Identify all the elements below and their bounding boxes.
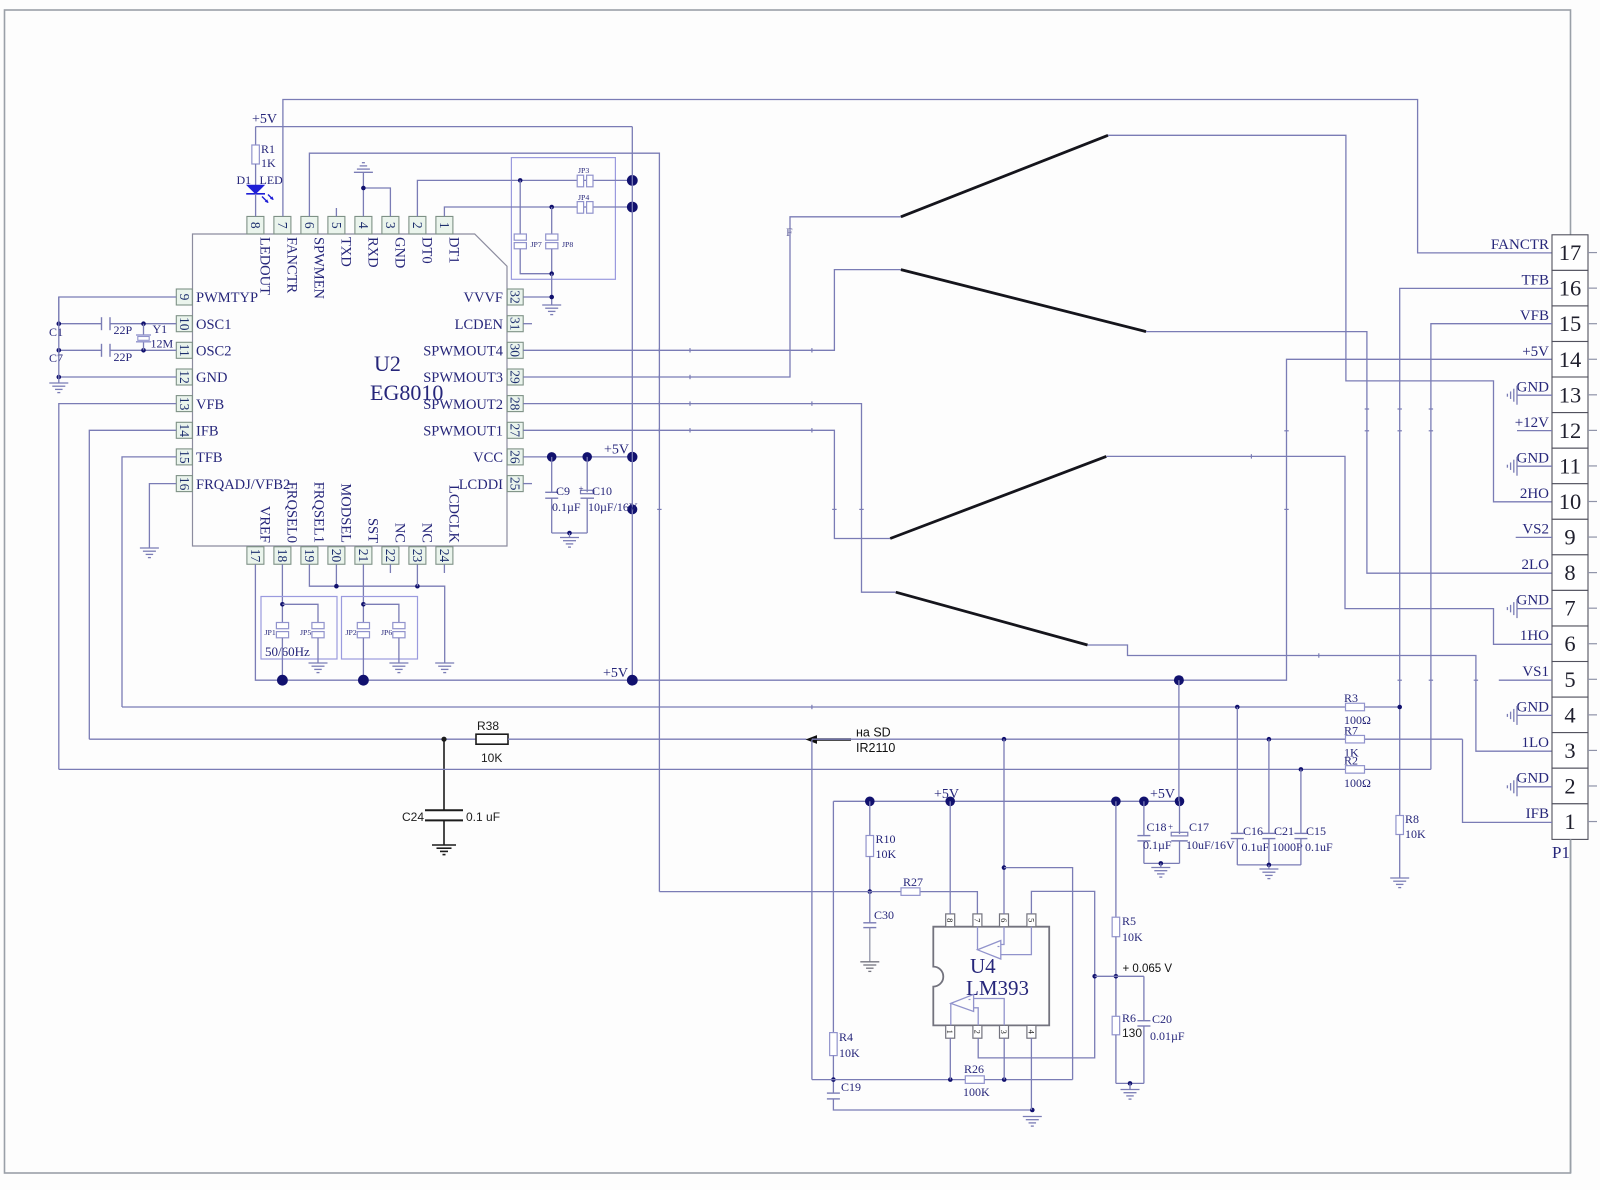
- svg-text:8: 8: [248, 222, 263, 229]
- U2 pin 32 name VVVF: [464, 290, 503, 306]
- connector P1 pin 14 box: [1552, 342, 1588, 378]
- svg-text:19: 19: [302, 549, 317, 563]
- svg-text:LED: LED: [260, 173, 284, 187]
- resistor R26: [963, 1062, 990, 1099]
- svg-text:10K: 10K: [876, 847, 897, 861]
- connector P1 pin 4 label GND: [1517, 699, 1550, 715]
- svg-text:SST: SST: [365, 518, 381, 543]
- svg-text:C24: C24: [402, 810, 424, 824]
- svg-text:2: 2: [972, 1030, 982, 1034]
- wire C24 vertical: [443, 739, 445, 810]
- connector P1 pin 3 label 1LO: [1522, 735, 1550, 751]
- svg-text:GND: GND: [1517, 699, 1550, 715]
- connector P1 pin 12 right stub: [1588, 429, 1597, 431]
- wire hop tick: [659, 375, 690, 379]
- wire OSC2 pin11: [59, 349, 177, 351]
- wire pin5 chain: [978, 891, 1094, 1058]
- connector P1 pin 8 box: [1552, 555, 1588, 591]
- connector P1 pin 1 right stub: [1588, 821, 1597, 823]
- node RXD-GND junction: [361, 186, 366, 191]
- connector P1 pin 9 label VS2: [1522, 522, 1549, 538]
- svg-text:22: 22: [383, 549, 398, 563]
- capacitor C17: [1168, 801, 1235, 863]
- wire +5V horizontal to JP net: [256, 126, 633, 128]
- connector P1 pin 10 right stub: [1588, 501, 1597, 503]
- svg-text:10K: 10K: [1122, 930, 1143, 944]
- connector P1 pin 1 box: [1552, 804, 1588, 840]
- wire hop tick: [659, 401, 690, 405]
- connector P1 pin 5 box: [1552, 662, 1588, 698]
- jumper JP4: [577, 193, 593, 213]
- svg-text:10: 10: [1559, 489, 1582, 514]
- ground (R8): [1390, 878, 1409, 888]
- svg-text:2: 2: [410, 222, 425, 229]
- connector P1 pin 12 box: [1552, 413, 1588, 449]
- connector P1 pin 15 label VFB: [1520, 308, 1549, 324]
- U2 pin 1 box: [436, 216, 453, 234]
- svg-text:12: 12: [177, 370, 192, 384]
- node pin4 gnd junction: [1030, 1108, 1035, 1113]
- svg-text:1K: 1K: [261, 156, 276, 170]
- wire R27 to pin7: [921, 892, 978, 914]
- wire +5V to R1: [255, 127, 257, 145]
- U2 pin 21 name SST: [365, 518, 381, 543]
- svg-text:3: 3: [1564, 738, 1575, 763]
- wire VVVF pin32: [523, 296, 552, 298]
- ground (P1 pin2): [1507, 777, 1552, 796]
- wire JP5 to ground: [317, 638, 319, 663]
- U4 pin 6 box: [999, 914, 1009, 927]
- U2 pin 10 box: [176, 316, 192, 332]
- ground (P1 pin11): [1507, 457, 1552, 476]
- svg-text:+: +: [579, 484, 584, 494]
- wire R3 out to TFB vert: [1365, 706, 1400, 708]
- connector P1 pin 7 right stub: [1588, 607, 1597, 609]
- U2 pin 7 box: [274, 216, 291, 234]
- U2 pin 16 name FRQADJ/VFB2: [196, 477, 290, 493]
- node DT0-JP7 junction: [518, 178, 523, 183]
- wire U4 pin1 down: [949, 1038, 951, 1079]
- wire P1 TFB pin16: [1400, 288, 1552, 815]
- wire C9-C10 bottoms: [552, 532, 588, 534]
- U4 pin 8 box: [945, 914, 955, 927]
- node OSC1 left junction: [57, 321, 62, 326]
- svg-text:17: 17: [248, 549, 263, 563]
- U2 pin 18 box: [274, 547, 291, 565]
- connector P1 pin 17 box: [1552, 235, 1588, 271]
- svg-text:130: 130: [1122, 1026, 1142, 1040]
- U2 pin 27 name SPWMOUT1: [423, 424, 503, 440]
- connector P1 pin 1 label IFB: [1526, 806, 1549, 822]
- svg-text:1: 1: [1564, 809, 1575, 834]
- svg-text:11: 11: [177, 344, 192, 357]
- wire U4 pin3 into comparator: [974, 999, 1005, 1026]
- svg-text:F: F: [786, 225, 793, 239]
- svg-text:31: 31: [508, 317, 523, 331]
- svg-text:GND: GND: [1517, 593, 1550, 609]
- jumper box JP2/JP6: [342, 597, 418, 660]
- connector P1 pin 8 right stub: [1588, 572, 1597, 574]
- svg-text:D1: D1: [237, 173, 252, 187]
- svg-text:MODSEL: MODSEL: [338, 483, 354, 543]
- svg-text:FRQADJ/VFB2: FRQADJ/VFB2: [196, 477, 290, 493]
- wire JP7/JP8 bottoms join: [520, 249, 552, 274]
- svg-text:DT1: DT1: [446, 237, 462, 264]
- svg-text:GND: GND: [1517, 379, 1550, 395]
- wire P1 bottom border link: [1570, 839, 1572, 1173]
- svg-text:VFB: VFB: [196, 397, 224, 413]
- connector P1 pin 2 right stub: [1588, 785, 1597, 787]
- svg-text:29: 29: [508, 370, 523, 384]
- ground (VVVF): [542, 305, 561, 315]
- resistor R7: [1344, 724, 1365, 760]
- ground (FRQADJ): [140, 548, 159, 558]
- svg-text:JP6: JP6: [381, 628, 392, 637]
- svg-text:+5V: +5V: [1150, 787, 1175, 802]
- svg-text:25: 25: [508, 477, 523, 491]
- wire LCDEN stub: [523, 323, 532, 325]
- svg-text:R26: R26: [964, 1062, 984, 1076]
- svg-text:12M: 12M: [151, 337, 174, 351]
- svg-text:R2: R2: [1344, 754, 1358, 768]
- svg-text:C16: C16: [1243, 824, 1263, 838]
- svg-text:R3: R3: [1344, 691, 1358, 705]
- wire U4 pin3 down: [1003, 1038, 1005, 1079]
- connector P1 pin 13 box: [1552, 377, 1588, 413]
- svg-text:JP2: JP2: [346, 628, 357, 637]
- capacitor C30: [863, 908, 894, 928]
- wire U4 pin4 down: [1030, 1038, 1032, 1110]
- wire rail to R4: [832, 801, 834, 1032]
- connector P1 pin 13 right stub: [1588, 394, 1597, 396]
- wire SPWMOUT3 to 2HO chain: [523, 217, 901, 377]
- svg-text:VS2: VS2: [1522, 522, 1549, 538]
- wire hop tick (TFB line): [811, 705, 813, 709]
- svg-text:1HO: 1HO: [1520, 628, 1549, 644]
- connector P1 pin 10 box: [1552, 484, 1588, 520]
- svg-text:GND: GND: [392, 237, 408, 268]
- svg-text:C15: C15: [1306, 824, 1326, 838]
- wire osc ground run: [58, 297, 60, 383]
- svg-text:JP1: JP1: [265, 628, 276, 637]
- connector P1 pin 8 label 2LO: [1522, 557, 1550, 573]
- wire hop ticks (y409): [1365, 408, 1433, 410]
- resistor R2: [1344, 754, 1371, 791]
- node DT0 net big dot: [627, 175, 638, 186]
- connector P1 pin 2 label GND: [1517, 770, 1550, 786]
- capacitor C9: [545, 457, 581, 533]
- svg-text:10: 10: [177, 317, 192, 331]
- svg-text:SPWMOUT4: SPWMOUT4: [423, 344, 504, 360]
- svg-text:15: 15: [177, 450, 192, 464]
- wire JP8 vertical: [551, 207, 553, 234]
- ground (P1 pin13): [1507, 386, 1552, 405]
- wire JP6 to ground: [398, 638, 400, 663]
- U2 pin 14 name IFB: [196, 424, 219, 440]
- node R3 input junction: [1235, 705, 1240, 710]
- U2 pin 20 name MODSEL: [338, 483, 354, 543]
- U4 pin 2 box: [972, 1025, 982, 1038]
- U2 pin 26 box: [507, 449, 523, 465]
- wire R4 to C19: [832, 1056, 834, 1094]
- power +5V label (mid rail): [603, 666, 628, 681]
- connector P1 pin 11 right stub: [1588, 465, 1597, 467]
- svg-text:0.1µF: 0.1µF: [1143, 838, 1172, 852]
- U2 pin 32 box: [507, 289, 523, 305]
- svg-text:24: 24: [437, 549, 452, 563]
- wire U4 pin5 into comparator: [1001, 927, 1032, 955]
- node +5V right big dot: [1174, 675, 1184, 685]
- U2 pin 2 name DT0: [419, 237, 435, 264]
- connector P1 pin 12 label +12V: [1515, 415, 1549, 431]
- node R3 output junction: [1397, 705, 1402, 710]
- svg-text:0.1µF: 0.1µF: [552, 500, 581, 514]
- ground (U4 pin4): [1023, 1117, 1042, 1127]
- svg-text:6: 6: [1564, 631, 1575, 656]
- node rail right-end dot: [1175, 797, 1185, 807]
- U2 pin 17 name VREF: [257, 506, 273, 543]
- svg-text:JP7: JP7: [531, 240, 542, 249]
- U2 pin 3 name GND: [392, 237, 408, 268]
- svg-text:50/60Hz: 50/60Hz: [265, 644, 310, 659]
- svg-text:+5V: +5V: [252, 112, 277, 127]
- wire hop ticks (y431): [1284, 430, 1433, 432]
- node R10-R27 junction: [868, 889, 873, 894]
- wire hop tick: [659, 348, 690, 352]
- ground (R6/C20): [1121, 1090, 1140, 1100]
- power +5V label (VCC): [604, 443, 629, 458]
- node JP7-JP8 junction: [549, 271, 554, 276]
- wire hop tick (1LO line): [1318, 653, 1320, 657]
- wire hop ticks (VS1 row): [1398, 679, 1479, 681]
- svg-text:16: 16: [177, 477, 192, 491]
- node C24 junction: [441, 737, 446, 742]
- wire NC22 stub: [389, 564, 391, 573]
- wire comparator B output to pin1: [950, 1003, 952, 1025]
- svg-text:16: 16: [1559, 276, 1582, 301]
- wire SPWMOUT2 to 1LO chain: [523, 404, 896, 593]
- svg-text:JP4: JP4: [578, 193, 589, 202]
- wire 2LO chain to P1-8: [1146, 332, 1552, 574]
- wire TFB line to R3: [122, 706, 1346, 708]
- wire C19 to pin4-gnd: [833, 1099, 1032, 1110]
- node caps gnd junction: [1267, 863, 1272, 868]
- capacitor C7: [49, 344, 133, 365]
- wire SST pin21 to JP2: [362, 564, 364, 622]
- svg-text:14: 14: [177, 424, 192, 438]
- U2 pin 27 box: [507, 422, 523, 438]
- node pin6 feedback junction: [1002, 865, 1007, 870]
- svg-text:NC: NC: [419, 523, 435, 543]
- wire 2HO chain to P1-10: [1108, 135, 1552, 502]
- node +5V branch dot: [627, 504, 637, 514]
- svg-text:10K: 10K: [481, 751, 502, 765]
- connector P1 pin 16 box: [1552, 270, 1588, 306]
- svg-text:+12V: +12V: [1515, 415, 1549, 431]
- svg-text:OSC2: OSC2: [196, 344, 231, 360]
- connector P1 pin 9 box: [1552, 519, 1588, 555]
- svg-text:4: 4: [356, 222, 371, 229]
- node DT1 net big dot: [627, 202, 638, 213]
- capacitor C20: [1137, 976, 1185, 1083]
- svg-text:0.01µF: 0.01µF: [1150, 1029, 1185, 1043]
- wire IFB pin14 down: [89, 430, 176, 739]
- U2 pin 23 box: [409, 547, 426, 565]
- svg-text:R6: R6: [1122, 1011, 1136, 1025]
- U2 pin 9 name PWMTYP: [196, 290, 258, 306]
- node VVVF junction: [549, 295, 554, 300]
- capacitor C18: [1137, 801, 1172, 863]
- svg-text:6: 6: [999, 918, 1009, 922]
- U2 pin 18 name FRQSEL0: [284, 482, 300, 543]
- wire P1 VS2 stub: [1516, 536, 1552, 538]
- jumper box JP1/JP5 50/60Hz: [261, 597, 337, 660]
- node R4-R26line junction: [831, 1077, 836, 1082]
- node F ghost label: [786, 225, 793, 239]
- node NC23 junction: [415, 584, 420, 589]
- node OSC2-Y1 junction: [141, 348, 146, 353]
- jumper JP1: [265, 623, 289, 638]
- wire +5V bottom rail: [833, 800, 1179, 802]
- svg-text:32: 32: [508, 290, 523, 304]
- svg-text:9: 9: [177, 294, 192, 301]
- wire GND pin12: [59, 376, 177, 378]
- svg-text:C9: C9: [556, 484, 570, 498]
- U2 pin 30 box: [507, 342, 523, 358]
- LED D1: [237, 173, 284, 203]
- wire JP2 to +5V rail: [362, 638, 364, 680]
- capacitor C19: [827, 1080, 861, 1099]
- svg-text:LCDDI: LCDDI: [459, 477, 503, 493]
- svg-text:NC: NC: [392, 523, 408, 543]
- node VCC junction C9: [547, 452, 557, 462]
- bus entry diagonal (SPWMOUT1-1HO): [890, 456, 1106, 538]
- svg-text:PWMTYP: PWMTYP: [196, 290, 258, 306]
- resistor R3: [1344, 691, 1371, 727]
- connector P1 pin 17 label FANCTR: [1491, 237, 1549, 253]
- U2 pin 31 box: [507, 316, 523, 332]
- wire hop tick: [811, 348, 813, 352]
- connector P1 pin 4 box: [1552, 697, 1588, 733]
- svg-text:U4: U4: [970, 954, 996, 978]
- node C21 junction: [1267, 737, 1272, 742]
- svg-text:LM393: LM393: [966, 976, 1029, 1000]
- connector P1 pin 10 label 2HO: [1520, 486, 1549, 502]
- U2 pin 19 box: [301, 547, 318, 565]
- U2 pin 13 box: [176, 396, 192, 412]
- svg-text:R8: R8: [1405, 812, 1419, 826]
- svg-text:7: 7: [972, 918, 982, 922]
- wire JP2-JP6 link: [363, 604, 399, 622]
- node C9C10 gnd junction: [567, 531, 572, 536]
- svg-text:13: 13: [1559, 382, 1582, 407]
- svg-text:3: 3: [383, 222, 398, 229]
- svg-text:1LO: 1LO: [1522, 735, 1550, 751]
- U2 pin 24 box: [436, 547, 453, 565]
- U2 pin 8 name LEDOUT: [257, 237, 273, 295]
- wire C30 to ground: [869, 928, 871, 962]
- svg-text:C7: C7: [49, 351, 63, 365]
- node VCC +5V big dot: [627, 452, 637, 462]
- U2 pin 13 name VFB: [196, 397, 224, 413]
- wire 1LO chain to P1-3: [1088, 645, 1553, 751]
- U2 pin 9 box: [176, 289, 192, 305]
- node R5-R6 junction: [1114, 974, 1119, 979]
- connector P1 name label: [1552, 843, 1570, 862]
- wire pin6 feedback up: [1003, 739, 1005, 914]
- svg-text:FANCTR: FANCTR: [284, 237, 300, 293]
- wire C16-C15 bottoms: [1237, 864, 1301, 866]
- svg-text:GND: GND: [1517, 770, 1550, 786]
- comparator U4 LM393 body: [933, 927, 1049, 1026]
- svg-text:100Ω: 100Ω: [1344, 776, 1371, 790]
- U4 pin 4 box: [1026, 1025, 1036, 1038]
- connector P1 pin 9 right stub: [1588, 536, 1597, 538]
- svg-text:C30: C30: [874, 908, 894, 922]
- wire R7 out: [1365, 738, 1463, 740]
- resistor R38: [476, 719, 508, 765]
- connector P1 pin 15 box: [1552, 306, 1588, 342]
- svg-text:2HO: 2HO: [1520, 486, 1549, 502]
- svg-text:R4: R4: [839, 1030, 853, 1044]
- svg-text:4: 4: [1564, 702, 1575, 727]
- svg-text:21: 21: [356, 549, 371, 563]
- U2 pin 4 box: [355, 216, 372, 234]
- capacitor C16: [1231, 707, 1270, 865]
- wire U4 pin8 to rail: [949, 801, 951, 914]
- svg-text:0.1uF: 0.1uF: [1242, 840, 1270, 854]
- wire hop tick: [659, 428, 690, 432]
- svg-text:10K: 10K: [839, 1046, 860, 1060]
- resistor R4: [830, 1030, 860, 1060]
- node R26 pin3 junction: [1002, 1077, 1007, 1082]
- wire U4 pin2 into comparator: [974, 1008, 979, 1026]
- svg-text:C18: C18: [1147, 820, 1167, 834]
- wire hop tick (1HO line): [1250, 454, 1252, 458]
- svg-text:RXD: RXD: [365, 237, 381, 268]
- crystal Y1: [136, 322, 174, 351]
- svg-text:TXD: TXD: [338, 237, 354, 267]
- wire FANCTR pin7 to P1-17: [283, 100, 1552, 253]
- U4 pin 7 box: [972, 914, 982, 927]
- connector P1 pin 6 box: [1552, 626, 1588, 662]
- node pin6 branch junction: [1002, 737, 1007, 742]
- node VCC junction C10: [582, 452, 592, 462]
- wire C18-C17 bottoms: [1144, 862, 1180, 864]
- U4 pin 1 box: [945, 1025, 955, 1038]
- wire SPWMEN pin6 down-run: [309, 153, 659, 891]
- U2 pin 6 box: [301, 216, 318, 234]
- svg-text:IFB: IFB: [1526, 806, 1549, 822]
- jumper JP7: [514, 234, 542, 249]
- node rail R10 dot: [865, 797, 875, 807]
- label arrow to IR2110 SD: [806, 726, 896, 756]
- svg-text:VCC: VCC: [473, 450, 503, 466]
- svg-text:IR2110: IR2110: [856, 741, 895, 755]
- svg-text:LCDEN: LCDEN: [455, 317, 504, 333]
- svg-text:4: 4: [1026, 1030, 1036, 1035]
- connector P1 pin 16 right stub: [1588, 287, 1597, 289]
- svg-text:C21: C21: [1274, 824, 1294, 838]
- svg-text:R7: R7: [1344, 724, 1358, 738]
- wire R2 out: [1365, 768, 1431, 770]
- wire PWMTYP pin9: [59, 297, 177, 324]
- svg-text:VS1: VS1: [1522, 664, 1549, 680]
- wire P1 IFB pin1: [1463, 739, 1553, 822]
- svg-text:VFB: VFB: [1520, 308, 1549, 324]
- wire R5 to junction: [1115, 937, 1117, 1017]
- wire 1HO chain to P1-6: [1106, 456, 1552, 644]
